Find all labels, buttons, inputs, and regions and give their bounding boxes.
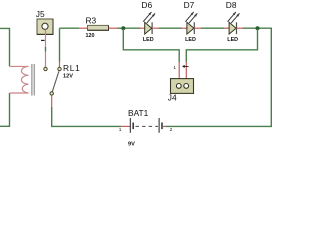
svg-text:BAT1: BAT1 — [128, 108, 149, 118]
wire: main top rail from relay corner to R3 — [60, 27, 80, 29]
svg-text:1: 1 — [173, 65, 176, 71]
svg-text:LED: LED — [185, 37, 196, 43]
J5 pin number mark — [41, 39, 45, 41]
svg-text:12V: 12V — [63, 74, 73, 80]
resistor R3 right pin stub — [109, 27, 118, 29]
J5 pin stub (red) down from pad — [45, 30, 47, 48]
wire: D6 to D7 — [159, 27, 182, 29]
wire: relay common down and right to battery — [52, 107, 122, 126]
relay switch lever — [52, 71, 59, 91]
connector J4 body — [171, 79, 194, 94]
svg-text:D8: D8 — [226, 0, 237, 10]
wire: D7 to D8 — [201, 27, 225, 29]
svg-text:120: 120 — [86, 33, 95, 39]
wire: rail corner down to relay right contact — [59, 28, 61, 61]
wire: top-left net exiting left edge to coil top — [0, 28, 10, 66]
svg-text:RL1: RL1 — [63, 63, 80, 73]
svg-text:2: 2 — [170, 127, 173, 133]
J4 pin 2 stub (red) — [185, 62, 187, 79]
LED D8 — [224, 12, 243, 34]
relay contact pin stub (red) — [45, 52, 47, 68]
svg-text:LED: LED — [227, 37, 238, 43]
wire: D8 to right corner, down right side — [166, 28, 272, 126]
svg-text:R3: R3 — [86, 16, 97, 26]
resistor R3 left pin stub — [79, 27, 88, 29]
svg-text:1: 1 — [119, 127, 122, 133]
LED D7 — [182, 12, 201, 34]
svg-text:J5: J5 — [36, 9, 45, 19]
relay common pin stub (red) — [51, 95, 53, 107]
relay RL1 coil (primary) — [10, 66, 29, 93]
J4 pin arrow mark — [183, 65, 189, 67]
resistor R3 body — [88, 25, 109, 30]
wire: short green link J5 to relay contact — [45, 47, 47, 52]
svg-text:LED: LED — [143, 37, 154, 43]
wire: junction down and right to J4 pin 1 — [123, 29, 179, 62]
junction node right of D8 — [256, 26, 260, 30]
J4 pin 1 stub (red) — [178, 62, 180, 79]
relay right contact circle — [58, 67, 61, 70]
LED D6 — [140, 12, 159, 34]
relay RL1 core lines — [32, 64, 34, 96]
wire: coil bottom to bottom-left exit — [0, 93, 10, 126]
wire: R3 to junction to D6 — [117, 27, 141, 29]
svg-text:9V: 9V — [128, 141, 135, 147]
svg-text:D6: D6 — [141, 0, 152, 10]
wire: right junction down and left to J4 pin 2 — [186, 29, 257, 62]
svg-text:D7: D7 — [184, 0, 195, 10]
svg-text:J4: J4 — [168, 92, 177, 102]
relay common contact circle — [50, 92, 53, 95]
battery BAT1 — [121, 118, 165, 133]
junction node at R3/J4 branch — [121, 26, 125, 30]
connector J5 body — [37, 19, 53, 34]
relay right contact pin stub (red) — [59, 62, 61, 68]
relay left contact circle — [44, 67, 47, 70]
